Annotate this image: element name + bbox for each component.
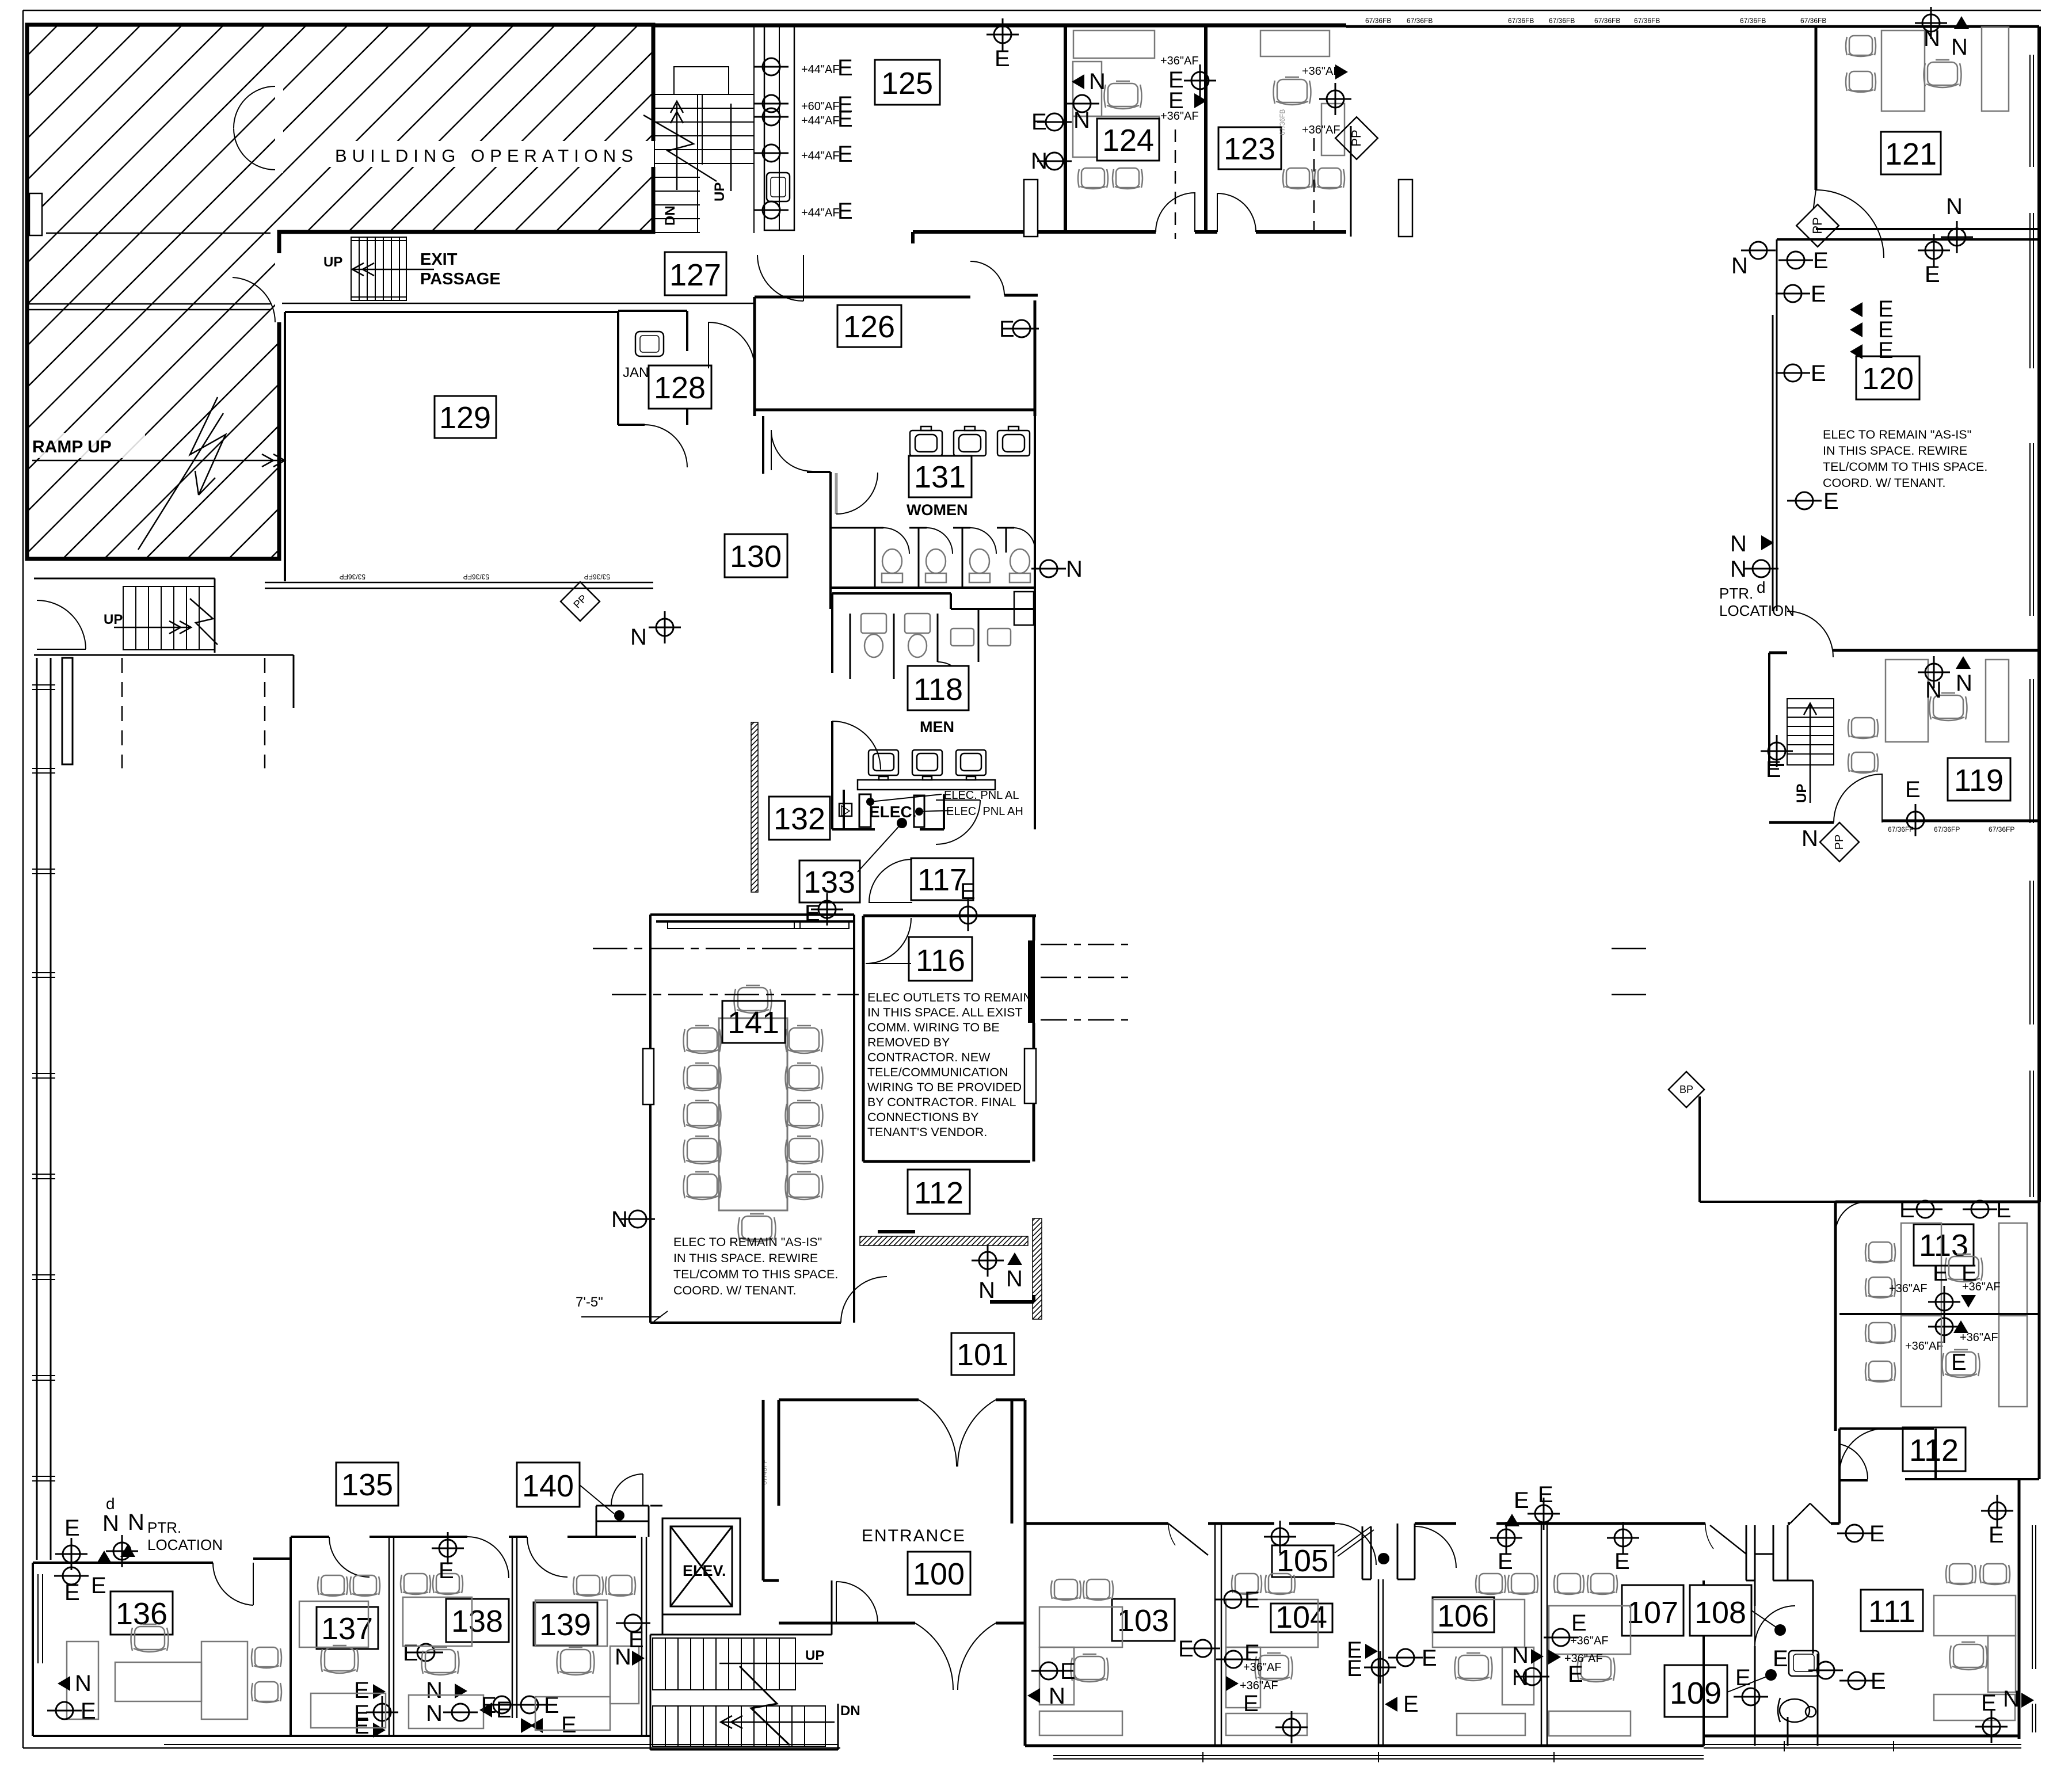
- 120 outlets west: [1741, 242, 1776, 259]
- lobby lower double door: [915, 1623, 996, 1690]
- svg-text:N: N: [75, 1671, 92, 1696]
- svg-text:121: 121: [1885, 137, 1937, 172]
- svg-text:E: E: [1981, 1690, 1997, 1716]
- svg-text:ELEC TO REMAIN "AS-IS": ELEC TO REMAIN "AS-IS": [673, 1235, 822, 1249]
- 120 note text: [1823, 428, 1987, 490]
- ELEV shaft: [662, 1518, 740, 1614]
- svg-text:53/36FP: 53/36FP: [340, 573, 365, 581]
- room 120 box: [1856, 356, 1919, 399]
- conference 141 walls: [650, 915, 854, 1323]
- 139 door arc: [527, 1537, 567, 1577]
- E outlet at 119 stair: [1761, 735, 1793, 767]
- svg-text:IN THIS SPACE. REWIRE: IN THIS SPACE. REWIRE: [1823, 444, 1967, 458]
- 103 furniture: [1051, 1579, 1081, 1600]
- left exterior wall double: [37, 658, 51, 1560]
- svg-text:E: E: [1538, 1482, 1553, 1507]
- svg-text:N: N: [1512, 1643, 1529, 1668]
- corridor outlet: [1837, 1525, 1872, 1542]
- right band top wall rooms 103-108: [1025, 1522, 1839, 1525]
- door arc 120 bottom: [1787, 611, 1833, 657]
- lobby east wall lower: [1024, 1524, 1027, 1746]
- WOMEN toilets: [882, 549, 1030, 582]
- svg-text:67/36FB: 67/36FB: [1740, 17, 1766, 25]
- E outlet right corridor: [1981, 1495, 2013, 1527]
- 67/36FP labels below 119: [1888, 825, 2014, 833]
- svg-text:112: 112: [1909, 1433, 1959, 1468]
- PP diamond near 123: [1335, 117, 1378, 159]
- wall 138/139: [512, 1537, 517, 1718]
- left mid stair zigzag: [190, 599, 218, 645]
- sill mullion ticks: [1203, 1741, 1894, 1762]
- svg-text:E: E: [1811, 361, 1826, 386]
- svg-text:E: E: [64, 1580, 80, 1605]
- svg-text:113: 113: [1919, 1228, 1968, 1263]
- svg-text:103: 103: [1117, 1604, 1169, 1638]
- elev lobby walls: [650, 1506, 740, 1635]
- JAN sink: [635, 332, 664, 356]
- BP diamond corridor: [1669, 1072, 1704, 1107]
- svg-text:EXIT: EXIT: [420, 250, 458, 269]
- svg-text:67/36FB: 67/36FB: [1594, 17, 1620, 25]
- MEN toilets top: [861, 614, 930, 657]
- room 106 box: [1433, 1597, 1494, 1632]
- room 129 west wall: [284, 312, 286, 581]
- stair block bottom walls: [650, 1580, 838, 1750]
- 121 outlet N cluster: [1915, 7, 1947, 39]
- 140 closet: [596, 1506, 649, 1537]
- 104 outlets: [1216, 1591, 1250, 1608]
- room 100 box: [908, 1552, 970, 1595]
- outer line bottom-left: [23, 1747, 840, 1749]
- room 135 box: [336, 1462, 398, 1506]
- svg-text:COORD. W/ TENANT.: COORD. W/ TENANT.: [1823, 476, 1945, 490]
- ELEC closet walls: [844, 790, 944, 829]
- svg-text:IN THIS SPACE. REWIRE: IN THIS SPACE. REWIRE: [673, 1251, 818, 1265]
- N outlet cluster 101: [972, 1244, 1004, 1277]
- svg-text:N: N: [102, 1511, 119, 1536]
- room 104 box: [1271, 1604, 1332, 1632]
- 53/36FP labels: [340, 573, 610, 581]
- svg-text:67/36FB: 67/36FB: [1634, 17, 1660, 25]
- exit passage corridor bottom line: [282, 303, 755, 304]
- svg-text:116: 116: [916, 943, 965, 978]
- svg-text:REMOVED BY: REMOVED BY: [867, 1035, 950, 1049]
- svg-text:E: E: [1773, 1646, 1788, 1671]
- svg-text:112: 112: [914, 1176, 963, 1210]
- 107 furniture: [1554, 1574, 1584, 1594]
- pilaster right of MEN: [1014, 592, 1034, 625]
- left wall window ticks: [32, 685, 55, 1481]
- 112R bottom wall: [1839, 1431, 2039, 1480]
- svg-text:126: 126: [843, 310, 895, 344]
- svg-text:COORD. W/ TENANT.: COORD. W/ TENANT.: [673, 1284, 796, 1297]
- wall 136/137: [290, 1537, 292, 1736]
- svg-text:UP: UP: [104, 612, 123, 627]
- stair door arc: [836, 1582, 878, 1623]
- svg-text:+44"AF: +44"AF: [801, 63, 840, 76]
- room 121 west wall: [1815, 26, 1818, 190]
- svg-text:+44"AF: +44"AF: [801, 207, 840, 219]
- svg-text:E: E: [1878, 338, 1894, 363]
- svg-text:UP: UP: [1794, 784, 1810, 803]
- 116 note text: [867, 991, 1032, 1139]
- lobby lower wall: [832, 1622, 1025, 1625]
- MEN sinks top right: [951, 629, 1011, 646]
- door arc room 123: [1217, 193, 1256, 232]
- 141 door arc: [841, 1277, 887, 1323]
- right wall window glass segments: [2030, 55, 2033, 1197]
- svg-text:119: 119: [1954, 763, 2004, 798]
- room 117 box: [911, 858, 973, 900]
- 103 outlets: [1031, 1662, 1066, 1679]
- room 112 box center: [908, 1170, 970, 1214]
- 139 outlets right: [616, 1614, 650, 1632]
- svg-text:E: E: [837, 106, 853, 132]
- svg-text:E: E: [439, 1558, 454, 1583]
- room 129 top wall: [285, 311, 618, 313]
- 126 door arc: [970, 261, 1004, 295]
- door arc 106 entry: [1415, 1526, 1456, 1568]
- corridor wall left of 113: [1700, 1096, 1835, 1202]
- svg-text:WIRING TO BE PROVIDED: WIRING TO BE PROVIDED: [867, 1080, 1022, 1094]
- svg-text:123: 123: [1224, 132, 1275, 166]
- svg-text:N: N: [128, 1510, 144, 1535]
- room 127 box: [665, 252, 726, 295]
- walls below 121: [1816, 228, 2039, 230]
- vestibule 104/106 walls: [1362, 1524, 1415, 1579]
- svg-text:124: 124: [1102, 123, 1154, 158]
- room 124 interior outlets: [1072, 74, 1084, 89]
- ramp arrow: [32, 454, 285, 467]
- svg-text:ELEC OUTLETS TO REMAIN: ELEC OUTLETS TO REMAIN: [867, 991, 1032, 1004]
- room 108 box: [1690, 1585, 1751, 1636]
- room 126 walls: [755, 295, 1038, 416]
- svg-text:128: 128: [654, 371, 706, 405]
- right outer wall upper: [2037, 26, 2041, 1202]
- svg-text:ELEV.: ELEV.: [683, 1562, 726, 1579]
- band top wall 137-139: [291, 1536, 636, 1538]
- 104 furniture: [1232, 1574, 1262, 1594]
- room 132 box: [769, 797, 830, 840]
- svg-text:53/36FP: 53/36FP: [463, 573, 489, 581]
- svg-text:E: E: [1869, 1521, 1885, 1547]
- room 105 box: [1272, 1545, 1334, 1577]
- small symbol left of ELEC: [839, 803, 852, 816]
- dash stubs right of 116: [1041, 944, 1128, 1020]
- room 121 furniture: [1846, 36, 1876, 56]
- svg-text:PTR.: PTR.: [1719, 585, 1753, 602]
- svg-text:TENANT'S VENDOR.: TENANT'S VENDOR.: [867, 1125, 987, 1139]
- washroom fixtures: [1789, 1651, 1819, 1676]
- room 130 box: [725, 534, 787, 577]
- 138 outlet E top: [432, 1532, 464, 1564]
- JAN door arc: [645, 425, 687, 467]
- svg-text:d: d: [106, 1495, 115, 1513]
- entrance top double door: [919, 1400, 996, 1467]
- room 119 furniture: [1848, 718, 1878, 738]
- svg-text:TELE/COMMUNICATION: TELE/COMMUNICATION: [867, 1065, 1008, 1079]
- 112 +36AF cluster: [1928, 1311, 1960, 1343]
- outlet right of washroom: [1839, 1672, 1874, 1689]
- room 131 box: [909, 456, 972, 497]
- thick bracket right of band: [990, 1295, 1034, 1302]
- DN/UP stair block top: [654, 26, 754, 233]
- MEN urinal stalls: [850, 614, 938, 679]
- svg-text:E: E: [1347, 1656, 1362, 1681]
- svg-text:N: N: [2003, 1686, 2020, 1712]
- room 112R box: [1903, 1427, 1966, 1471]
- 138 door arc: [467, 1537, 509, 1578]
- 141 pilaster: [643, 1049, 654, 1105]
- door arc room 124: [1156, 193, 1195, 232]
- room 123 furniture: [1260, 31, 1344, 155]
- svg-text:106: 106: [1437, 1599, 1489, 1633]
- left stair arrow: [114, 621, 191, 634]
- svg-text:67/36FB: 67/36FB: [1549, 17, 1575, 25]
- svg-text:ENTRANCE: ENTRANCE: [862, 1526, 966, 1545]
- MEN counter: [858, 780, 995, 790]
- svg-text:ELEC.: ELEC.: [869, 803, 916, 821]
- svg-text:N: N: [1089, 69, 1106, 94]
- svg-text:N: N: [630, 624, 647, 650]
- svg-text:141: 141: [728, 1006, 779, 1040]
- WOMEN stalls: [832, 528, 1014, 588]
- svg-text:TEL/COMM TO THIS SPACE.: TEL/COMM TO THIS SPACE.: [1823, 460, 1987, 474]
- svg-text:E: E: [354, 1678, 370, 1703]
- ramp zigzag arrow: [138, 397, 226, 550]
- room 113 box: [1914, 1224, 1974, 1266]
- svg-text:67/36FB: 67/36FB: [1407, 17, 1433, 25]
- svg-text:N: N: [1073, 108, 1090, 133]
- svg-text:E: E: [1899, 1197, 1915, 1222]
- dashed lines below vestibule: [122, 658, 265, 768]
- svg-text:WOMEN: WOMEN: [907, 501, 968, 519]
- room 107 box: [1622, 1585, 1684, 1636]
- wall 106/107: [1541, 1524, 1547, 1746]
- 112R door arc: [1839, 1444, 1868, 1479]
- WOMEN room walls: [763, 416, 1036, 609]
- svg-text:67/36FB: 67/36FB: [1365, 17, 1391, 25]
- svg-text:129: 129: [439, 401, 491, 435]
- svg-text:+36"AF: +36"AF: [1240, 1679, 1278, 1692]
- washroom right wall: [1788, 1654, 1818, 1746]
- svg-text:N: N: [1731, 253, 1748, 279]
- svg-text:+36"AF: +36"AF: [1889, 1282, 1928, 1295]
- room 113 furniture: [1865, 1242, 1895, 1263]
- BUILDING OPERATIONS text: [328, 141, 673, 167]
- svg-text:+36"AF: +36"AF: [1570, 1635, 1609, 1647]
- svg-text:E: E: [1568, 1662, 1583, 1687]
- svg-text:ELEC. PNL AH: ELEC. PNL AH: [946, 805, 1023, 818]
- svg-text:+44"AF: +44"AF: [801, 115, 840, 127]
- room 113 block: [1835, 1202, 2039, 1431]
- wall 103/104: [1215, 1524, 1221, 1746]
- room 137 box: [317, 1607, 378, 1649]
- room 136 top wall: [33, 1559, 291, 1563]
- wall 107/corridor: [1702, 1580, 1705, 1746]
- hatched area building operations + ramp: [27, 25, 653, 559]
- svg-text:100: 100: [913, 1557, 965, 1591]
- room 116 box: [909, 937, 972, 981]
- wall vestibule/106: [1378, 1579, 1383, 1746]
- svg-text:d: d: [1757, 578, 1766, 596]
- svg-text:N: N: [1924, 26, 1940, 51]
- svg-text:E: E: [1614, 1549, 1630, 1574]
- WOMEN sinks: [910, 426, 1030, 456]
- svg-text:E: E: [354, 1713, 370, 1739]
- 106 outlet top: [1490, 1522, 1522, 1554]
- svg-text:N: N: [1049, 1684, 1065, 1709]
- room 112R furniture: [1865, 1323, 1895, 1343]
- door arc 111 upper: [1839, 1429, 1885, 1474]
- svg-text:130: 130: [730, 539, 782, 574]
- corridor 127 door arc: [709, 322, 755, 368]
- door arc hatch wall lower: [233, 277, 275, 322]
- room 133 box: [799, 860, 860, 902]
- conference table: [719, 1018, 787, 1210]
- svg-text:E: E: [1766, 757, 1781, 782]
- exit passage stair: [351, 237, 406, 300]
- svg-text:E: E: [1735, 1665, 1751, 1690]
- 113 door arc: [1835, 1202, 1867, 1233]
- room 129 box: [435, 396, 496, 438]
- svg-text:+36"AF: +36"AF: [1302, 124, 1340, 136]
- svg-text:COMM. WIRING TO BE: COMM. WIRING TO BE: [867, 1020, 1000, 1034]
- bottom left rooms outer west wall: [32, 1563, 34, 1736]
- left stair door arc: [37, 600, 86, 649]
- MEN lav sinks bottom: [869, 750, 986, 780]
- svg-text:125: 125: [881, 66, 933, 101]
- room 124 box: [1097, 119, 1159, 161]
- 119 N outlets top: [1918, 656, 1950, 688]
- svg-text:+36"AF: +36"AF: [1160, 55, 1199, 67]
- svg-text:E: E: [81, 1698, 96, 1724]
- svg-text:E: E: [1498, 1549, 1513, 1574]
- room 126 box: [837, 305, 901, 347]
- svg-text:109: 109: [1670, 1676, 1721, 1711]
- svg-text:N: N: [1512, 1665, 1529, 1690]
- door arcs hatch wall upper: [234, 86, 275, 170]
- ramp double line: [29, 304, 271, 310]
- room 125 box: [875, 60, 940, 105]
- svg-text:108: 108: [1694, 1595, 1746, 1630]
- corridor 127 door arc upper: [757, 255, 803, 301]
- svg-text:E: E: [1905, 777, 1921, 802]
- svg-text:E: E: [1925, 262, 1940, 287]
- svg-text:104: 104: [1275, 1600, 1327, 1635]
- svg-text:E: E: [1813, 248, 1829, 273]
- MEN stall door arc: [938, 662, 965, 690]
- pilaster left wall hatch: [29, 193, 42, 235]
- svg-text:LOCATION: LOCATION: [147, 1536, 223, 1553]
- outer property line top: [23, 10, 2041, 12]
- door opening gap hatch wall lower: [275, 253, 283, 322]
- svg-text:N: N: [615, 1644, 631, 1670]
- svg-text:N: N: [1006, 1266, 1023, 1292]
- 120 outlet lower: [1787, 492, 1822, 509]
- svg-text:N: N: [1730, 531, 1747, 557]
- svg-text:111: 111: [1868, 1594, 1915, 1629]
- svg-text:BY CONTRACTOR. FINAL: BY CONTRACTOR. FINAL: [867, 1095, 1016, 1109]
- svg-text:127: 127: [669, 258, 721, 292]
- svg-text:133: 133: [803, 865, 855, 900]
- room 111 box: [1861, 1590, 1923, 1631]
- svg-text:101: 101: [957, 1338, 1008, 1372]
- svg-text:+36"AF: +36"AF: [1960, 1331, 1998, 1344]
- door arc ELEC corridor: [936, 800, 980, 844]
- room 124 walls: [1065, 26, 1206, 232]
- svg-text:E: E: [1996, 1197, 2012, 1222]
- west window 136: [38, 1574, 43, 1663]
- 67/36FB labels top: [1365, 17, 1826, 25]
- column top corridor: [1399, 180, 1412, 237]
- svg-text:N: N: [978, 1278, 995, 1303]
- svg-text:N: N: [1951, 35, 1968, 60]
- svg-text:67/36FB: 67/36FB: [1278, 109, 1286, 135]
- ramp line 1: [46, 233, 271, 234]
- top window wall right segments: [1346, 25, 2039, 28]
- ELEC dots and leaders: [866, 798, 874, 806]
- svg-text:E: E: [1989, 1522, 2004, 1548]
- wall 137/138: [389, 1537, 394, 1736]
- svg-text:140: 140: [522, 1469, 574, 1503]
- dash-dot centerlines: [593, 948, 1653, 950]
- svg-text:N: N: [1925, 677, 1942, 703]
- svg-text:DN: DN: [840, 1703, 860, 1719]
- sink room 125 wall: [767, 173, 790, 201]
- 138 furniture: [401, 1574, 431, 1594]
- svg-text:E: E: [1571, 1610, 1587, 1636]
- svg-text:RAMP UP: RAMP UP: [32, 437, 112, 456]
- room 140 box: [517, 1462, 580, 1507]
- svg-text:E: E: [837, 55, 853, 81]
- left mid stair vestibule walls: [34, 578, 294, 708]
- outlet E top center: [987, 18, 1019, 51]
- svg-text:DN: DN: [662, 205, 678, 226]
- bottom sill right band: [1053, 1745, 2021, 1759]
- svg-text:PASSAGE: PASSAGE: [420, 270, 501, 288]
- right wall lower windows: [2032, 1525, 2036, 1732]
- DN arrow top stair: [671, 101, 683, 190]
- room 136 box: [111, 1591, 173, 1635]
- room 118 box: [908, 666, 969, 710]
- svg-text:CONTRACTOR. NEW: CONTRACTOR. NEW: [867, 1050, 991, 1064]
- stair break zigzag top: [643, 115, 717, 181]
- svg-text:E: E: [1060, 1659, 1076, 1684]
- svg-text:E: E: [1422, 1646, 1437, 1671]
- 105 outlet top: [1264, 1521, 1296, 1553]
- svg-text:E: E: [1243, 1691, 1259, 1716]
- svg-text:+36"AF: +36"AF: [1962, 1281, 2001, 1293]
- hatched wall strip left: [751, 722, 758, 892]
- svg-text:+60"AF: +60"AF: [801, 100, 840, 113]
- room 121 door arc: [1811, 190, 1884, 258]
- svg-text:137: 137: [321, 1612, 373, 1646]
- svg-text:7'-5": 7'-5": [576, 1294, 603, 1310]
- room 128 box: [649, 365, 711, 409]
- corridor wall under 123: [1350, 126, 1352, 237]
- svg-text:E: E: [1514, 1488, 1529, 1513]
- room 101 box: [951, 1333, 1014, 1375]
- svg-text:67/36FB: 67/36FB: [1508, 17, 1534, 25]
- bottom wall rooms 136-139: [33, 1735, 650, 1737]
- svg-text:N: N: [426, 1678, 443, 1703]
- conference chairs: [734, 985, 772, 1013]
- 106 furniture: [1476, 1574, 1506, 1594]
- 108 vestibule door diagonal: [1705, 1524, 1713, 1549]
- svg-text:ELEC TO REMAIN "AS-IS": ELEC TO REMAIN "AS-IS": [1823, 428, 1971, 441]
- wall 113/112: [1839, 1313, 2039, 1315]
